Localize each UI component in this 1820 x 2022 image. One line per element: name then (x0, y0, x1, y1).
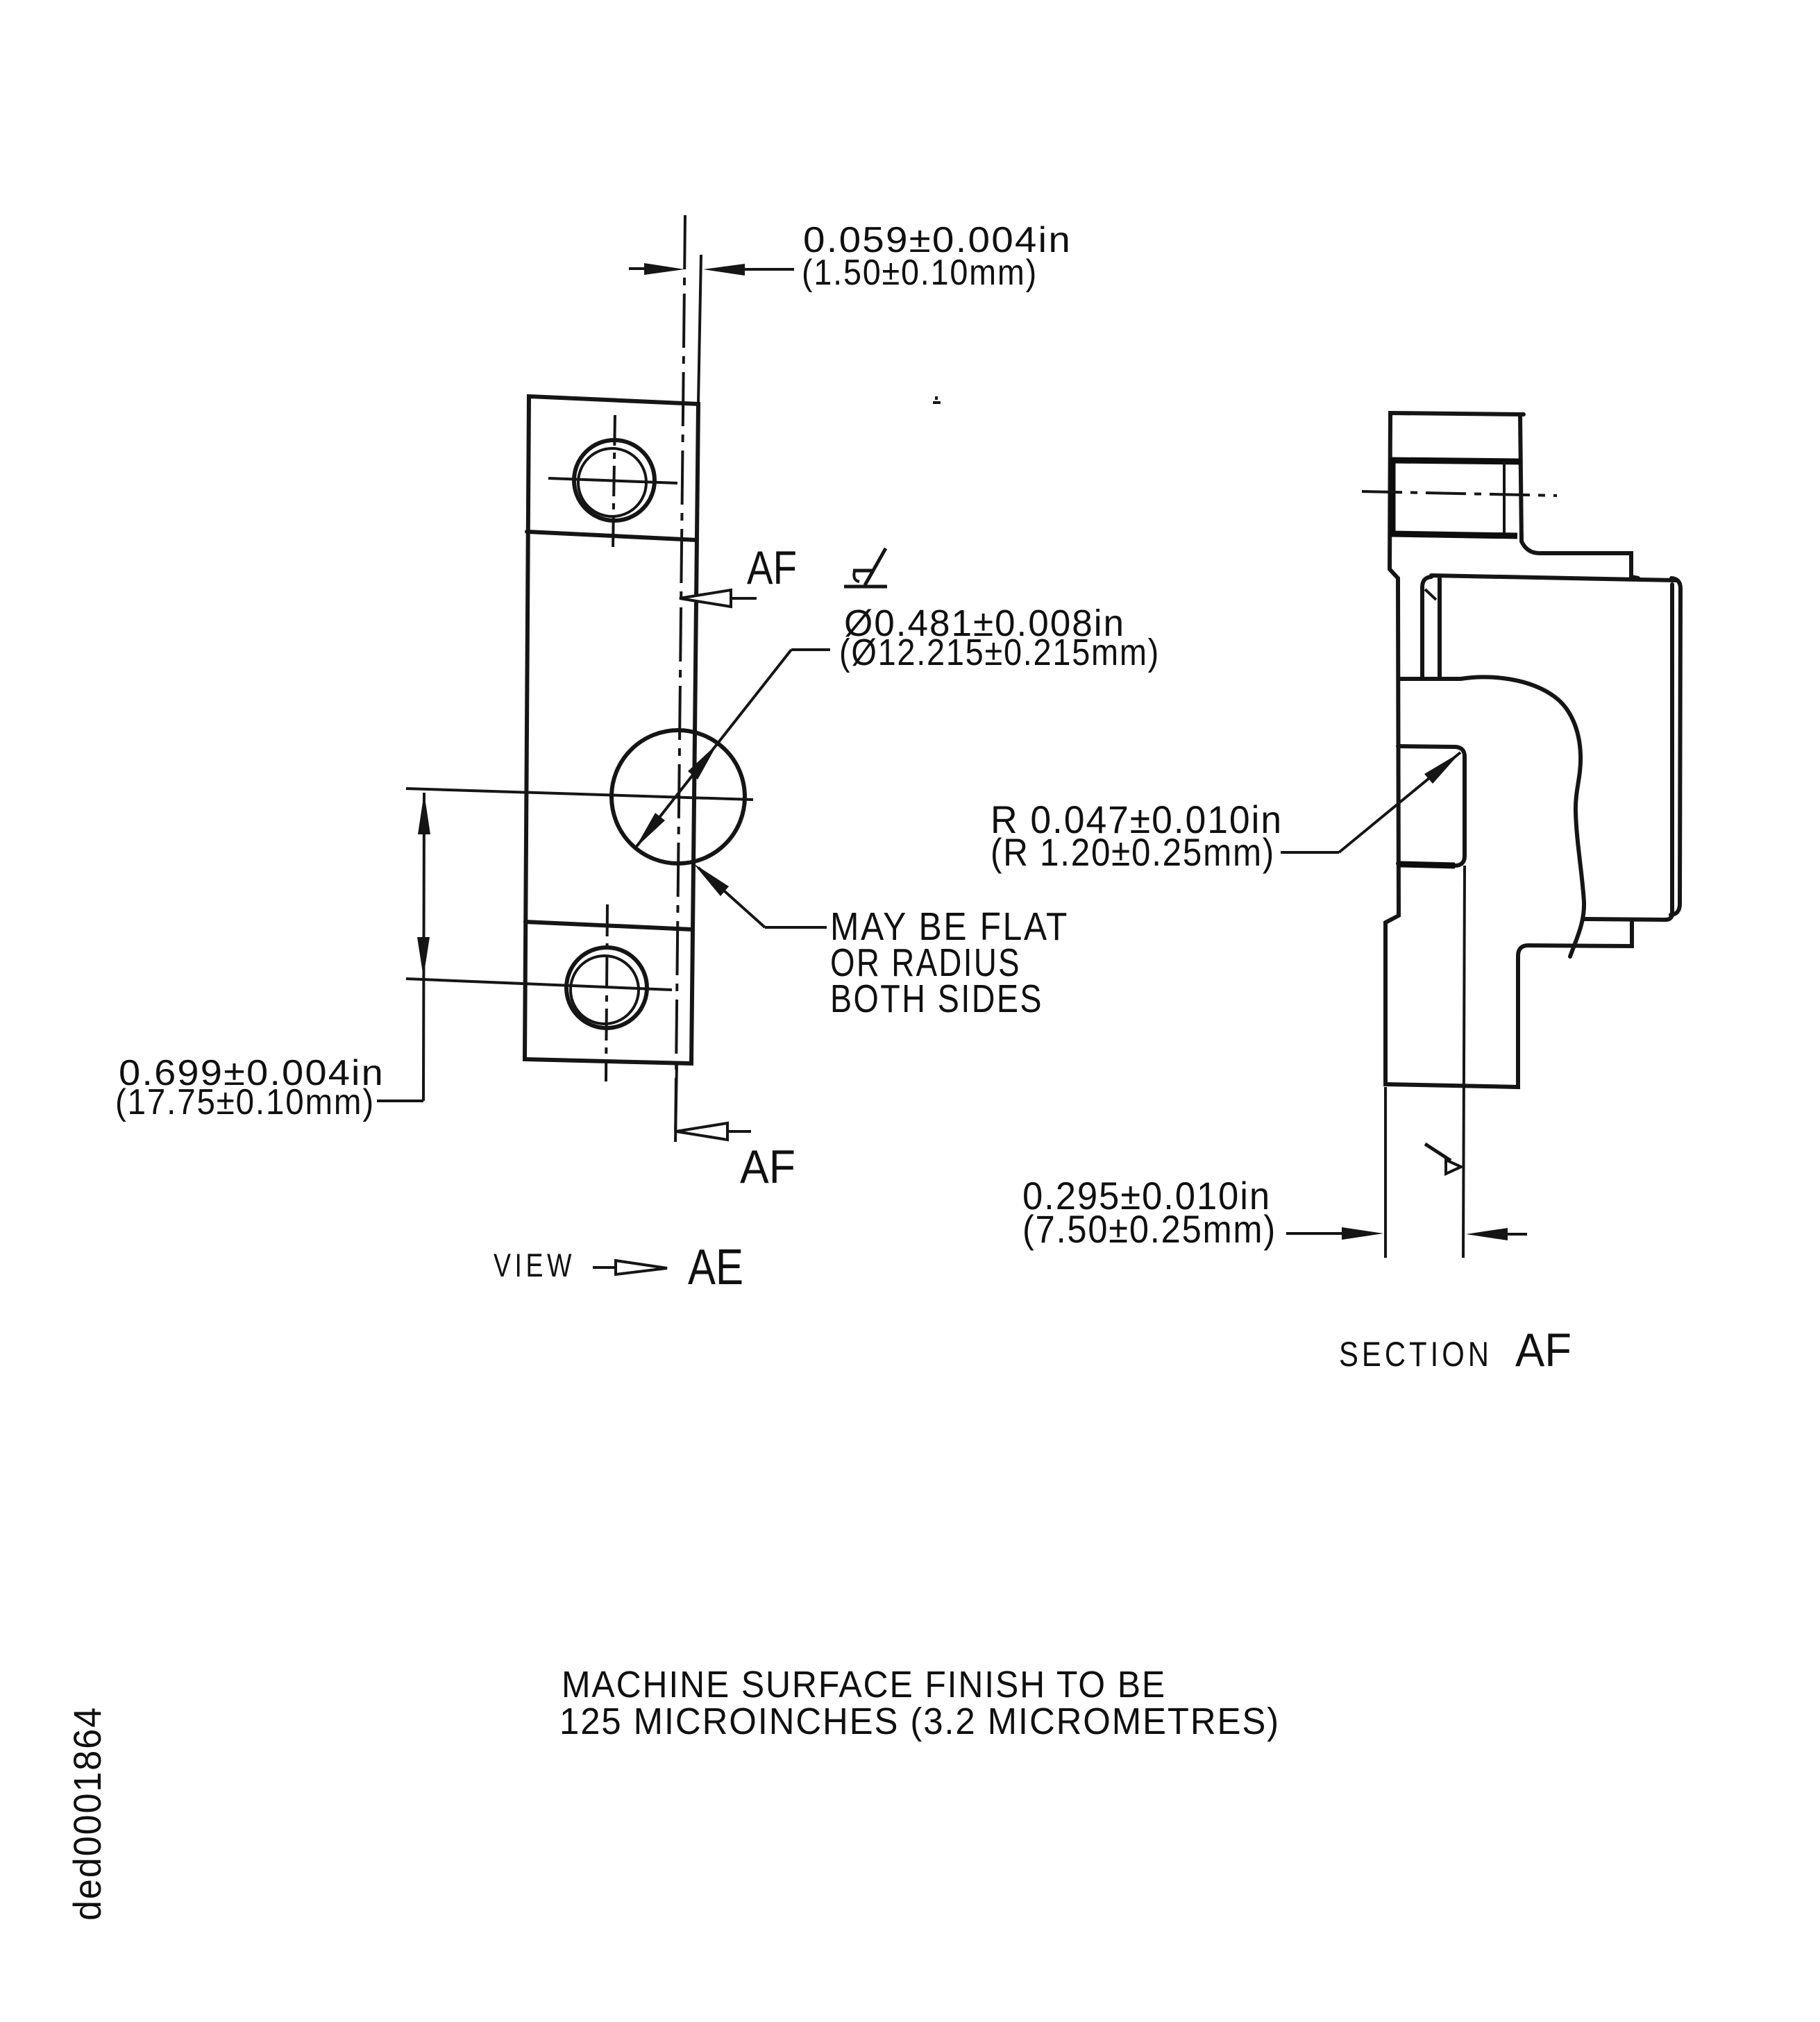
notch circle (612, 730, 745, 863)
ledge line from left wall (1399, 677, 1460, 681)
dim 0.059 right arrow (703, 264, 745, 276)
svg-text:ded0001864: ded0001864 (65, 1706, 109, 1921)
view arrow tail (593, 1266, 617, 1269)
connector body left double line outer (1422, 577, 1431, 678)
cutting line solid segment below plate (675, 1063, 677, 1142)
center line through tab (1362, 491, 1557, 496)
svg-text:MACHINE SURFACE FINISH TO BE: MACHINE SURFACE FINISH TO BE (562, 1664, 1166, 1705)
svg-text:BOTH SIDES: BOTH SIDES (830, 977, 1043, 1021)
section top tab right side and step (1520, 414, 1638, 578)
R leader horizontal (1281, 851, 1339, 854)
plate outline left view (525, 396, 698, 1063)
svg-text:125 MICROINCHES (3.2 MICROMETR: 125 MICROINCHES (3.2 MICROMETRES) (559, 1701, 1280, 1742)
divider line above bottom hole (525, 922, 692, 929)
svg-text:(17.75±0.10mm): (17.75±0.10mm) (115, 1082, 375, 1122)
divider line below top hole (527, 532, 697, 540)
svg-text:(Ø12.215±0.215mm): (Ø12.215±0.215mm) (839, 632, 1160, 673)
dim 0.295 right arrow (1466, 1228, 1508, 1240)
svg-text:(1.50±0.10mm): (1.50±0.10mm) (802, 253, 1038, 293)
bottom hole outer circle (566, 947, 647, 1028)
notch horizontal center line / 0.699 extension (406, 789, 753, 800)
left extension line below arm (1384, 1087, 1387, 1258)
dim 0.699 down arrow (417, 937, 430, 977)
surface finish symbol upper (844, 548, 887, 587)
R arrow (1424, 752, 1460, 784)
note leader horizontal (765, 926, 827, 929)
connector corner tick (1425, 589, 1436, 600)
diameter leader diagonal (635, 650, 791, 848)
dim 0.295 right tail (1506, 1233, 1527, 1236)
dim 0.059 left arrow (644, 263, 684, 275)
top hole horizontal center line (548, 478, 677, 483)
diameter leader horizontal (791, 648, 830, 651)
dim 0.699 text leader (377, 1100, 423, 1102)
top hole vertical center line (613, 415, 615, 550)
AF lower arrow tail (727, 1130, 751, 1133)
dim 0.699 up arrow (418, 793, 430, 834)
bottom hole vertical center line (606, 904, 607, 1081)
AF upper open arrow (680, 590, 731, 607)
dim 0.059 right tail (743, 268, 794, 271)
plate cross-section thick rectangle (1390, 459, 1521, 536)
dim 0.059 left tail (629, 267, 646, 270)
connector body left double line inner (1438, 578, 1442, 678)
break S-curve (1460, 677, 1584, 957)
connector body right double line inner (1670, 584, 1674, 913)
section outline top tab and left side (1385, 413, 1632, 1087)
internal edge line below groove (1463, 866, 1465, 1258)
connector body bottom edge (1583, 913, 1672, 920)
top hole outer circle (574, 440, 655, 521)
svg-text:VIEW: VIEW (494, 1247, 575, 1283)
groove notch rectangle (1398, 746, 1465, 866)
surface finish symbol lower (1425, 1144, 1461, 1174)
section cutting plane line AF (dash-dot) (675, 215, 685, 1140)
note arrow (693, 863, 729, 896)
diameter arrow upper (688, 743, 718, 780)
AF lower open arrow (676, 1123, 727, 1140)
dim 0.295 left arrow (1342, 1227, 1383, 1240)
bottom hole inner circle (571, 956, 639, 1024)
dim 0.295 left tail (1286, 1232, 1343, 1235)
svg-text:AF: AF (740, 1140, 795, 1193)
connector body right double line outer (1671, 578, 1680, 915)
right edge extension line above plate (698, 255, 701, 403)
note leader diagonal (698, 868, 765, 927)
svg-text:AF: AF (747, 541, 797, 594)
R leader diagonal (1339, 752, 1460, 852)
dim 0.699 vertical line (423, 793, 424, 1101)
diameter arrow lower (635, 813, 665, 848)
svg-text:AE: AE (688, 1240, 743, 1295)
svg-text:SECTION: SECTION (1339, 1335, 1492, 1374)
stray scan mark (933, 396, 941, 403)
connector body top edge (1431, 575, 1676, 580)
svg-text:(7.50±0.25mm): (7.50±0.25mm) (1022, 1207, 1276, 1251)
groove notch bottom emphasis (1399, 864, 1455, 866)
top hole inner circle (578, 448, 646, 516)
svg-text:(R 1.20±0.25mm): (R 1.20±0.25mm) (991, 830, 1275, 874)
bottom hole horizontal center line / 0.699 extension (406, 979, 672, 990)
AF upper arrow tail (731, 597, 757, 600)
view open arrow (616, 1261, 667, 1274)
svg-text:AF: AF (1515, 1324, 1572, 1376)
